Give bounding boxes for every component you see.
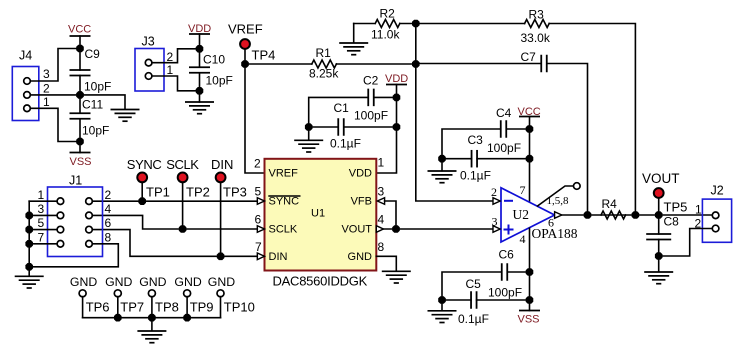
svg-text:J2: J2 <box>711 184 724 198</box>
svg-text:100pF: 100pF <box>354 109 388 123</box>
svg-text:1: 1 <box>38 188 45 202</box>
svg-text:TP5: TP5 <box>664 200 688 215</box>
svg-text:DIN: DIN <box>211 157 233 172</box>
svg-text:5: 5 <box>38 216 45 230</box>
svg-text:1: 1 <box>378 156 385 170</box>
svg-text:3: 3 <box>38 202 45 216</box>
svg-text:4: 4 <box>105 202 112 216</box>
svg-text:TP8: TP8 <box>155 300 179 315</box>
svg-text:TP6: TP6 <box>86 300 110 315</box>
svg-text:10pF: 10pF <box>84 80 111 94</box>
svg-text:TP9: TP9 <box>190 300 214 315</box>
svg-text:6: 6 <box>255 213 262 227</box>
svg-text:VREF: VREF <box>269 168 299 180</box>
svg-text:VOUT: VOUT <box>642 171 680 186</box>
svg-text:4: 4 <box>520 232 526 246</box>
svg-text:1: 1 <box>695 203 702 217</box>
svg-text:8: 8 <box>378 240 385 254</box>
svg-text:VSS: VSS <box>70 156 92 168</box>
svg-text:TP2: TP2 <box>186 185 210 200</box>
svg-text:VFB: VFB <box>351 196 372 208</box>
svg-text:DAC8560IDDGK: DAC8560IDDGK <box>273 273 368 288</box>
svg-text:OPA188: OPA188 <box>532 226 578 241</box>
svg-text:GND: GND <box>70 275 97 289</box>
svg-text:TP10: TP10 <box>224 300 255 315</box>
svg-text:GND: GND <box>208 275 235 289</box>
svg-text:U2: U2 <box>513 207 530 222</box>
svg-text:C5: C5 <box>466 277 482 291</box>
svg-text:GND: GND <box>174 275 201 289</box>
svg-text:0.1µF: 0.1µF <box>458 312 489 326</box>
svg-text:R4: R4 <box>602 197 618 211</box>
svg-text:GND: GND <box>139 275 166 289</box>
svg-text:VDD: VDD <box>385 73 408 85</box>
svg-text:C3: C3 <box>468 133 484 147</box>
svg-text:U1: U1 <box>311 208 325 220</box>
svg-text:R3: R3 <box>529 8 545 22</box>
svg-text:SYNC: SYNC <box>127 157 162 172</box>
svg-text:7: 7 <box>255 240 262 254</box>
svg-text:VREF: VREF <box>228 22 263 37</box>
svg-text:C10: C10 <box>203 53 225 67</box>
svg-text:J4: J4 <box>19 49 32 63</box>
svg-text:C4: C4 <box>496 106 512 120</box>
svg-text:GND: GND <box>348 251 373 263</box>
svg-text:C7: C7 <box>521 50 537 64</box>
svg-text:C9: C9 <box>85 47 101 61</box>
svg-text:2: 2 <box>105 188 112 202</box>
svg-text:TP7: TP7 <box>120 300 144 315</box>
svg-text:2: 2 <box>491 185 497 199</box>
svg-text:C11: C11 <box>82 98 103 112</box>
svg-text:5: 5 <box>255 185 262 199</box>
svg-text:7: 7 <box>38 231 45 245</box>
svg-text:SCLK: SCLK <box>269 224 298 236</box>
svg-text:C8: C8 <box>664 215 680 229</box>
svg-text:VDD: VDD <box>349 168 372 180</box>
svg-text:VCC: VCC <box>68 24 91 36</box>
svg-text:2: 2 <box>43 82 50 96</box>
svg-text:100pF: 100pF <box>487 141 521 155</box>
svg-text:33.0k: 33.0k <box>521 31 551 45</box>
svg-text:C1: C1 <box>334 101 350 115</box>
svg-text:TP4: TP4 <box>252 48 276 63</box>
svg-text:3: 3 <box>378 185 385 199</box>
svg-text:3: 3 <box>492 215 498 229</box>
svg-text:8: 8 <box>105 231 112 245</box>
svg-text:J3: J3 <box>142 35 155 49</box>
svg-text:R2: R2 <box>380 7 396 21</box>
svg-text:GND: GND <box>105 275 132 289</box>
svg-text:SCLK: SCLK <box>166 157 199 172</box>
svg-text:SYNC: SYNC <box>269 196 300 208</box>
svg-text:C2: C2 <box>363 74 379 88</box>
svg-text:DIN: DIN <box>269 251 288 263</box>
svg-text:0.1µF: 0.1µF <box>460 169 491 183</box>
svg-text:2: 2 <box>254 157 261 171</box>
svg-text:TP1: TP1 <box>146 185 170 200</box>
svg-text:0.1µF: 0.1µF <box>330 137 361 151</box>
svg-text:3: 3 <box>43 67 50 81</box>
svg-text:100pF: 100pF <box>488 286 522 300</box>
svg-text:6: 6 <box>105 216 112 230</box>
svg-text:4: 4 <box>378 213 385 227</box>
svg-text:VSS: VSS <box>518 314 540 326</box>
svg-text:11.0k: 11.0k <box>371 28 400 42</box>
svg-text:VOUT: VOUT <box>341 224 372 236</box>
svg-text:10pF: 10pF <box>206 74 233 88</box>
svg-text:1: 1 <box>167 63 174 77</box>
svg-text:C6: C6 <box>499 248 515 262</box>
svg-text:J1: J1 <box>69 174 82 188</box>
svg-text:8.25k: 8.25k <box>309 67 339 81</box>
svg-text:TP3: TP3 <box>223 185 247 200</box>
svg-text:R1: R1 <box>316 46 332 60</box>
svg-text:10pF: 10pF <box>82 124 109 138</box>
svg-text:7: 7 <box>520 183 526 197</box>
svg-text:1: 1 <box>43 95 50 109</box>
